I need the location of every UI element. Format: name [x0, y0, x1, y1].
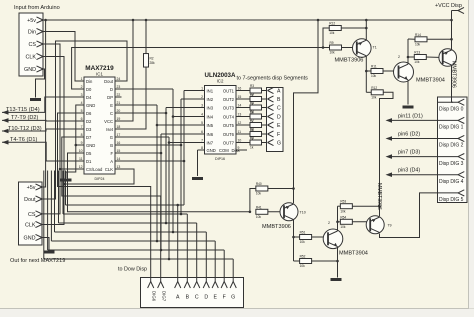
svg-text:2: 2	[81, 85, 83, 89]
svg-text:15: 15	[238, 95, 242, 99]
off-page arrow pin3 (D4)	[386, 172, 393, 177]
resistor R54 (stage2 T12 base)	[340, 215, 352, 229]
wire R54 right to T12 base	[352, 221, 370, 223]
svg-text:CLK: CLK	[105, 167, 113, 172]
wire +5v staircase to stage2	[292, 20, 318, 203]
off-page arrow pin11 (D1)	[386, 118, 393, 123]
svg-text:OUT1: OUT1	[223, 88, 235, 93]
label: T7-T9 (D2)	[11, 115, 38, 121]
wire pin11 (D1) to Disp DIG 1	[392, 119, 438, 121]
label: MMBT3906 vertical (stage2)	[376, 183, 382, 210]
svg-text:T4-T6 (D1): T4-T6 (D1)	[10, 137, 37, 143]
label: T4-T6 (D1)	[10, 137, 37, 143]
svg-text:2: 2	[328, 221, 330, 225]
resistor R9 (segment G)	[250, 136, 262, 150]
wire U2 OUT5 to resistor	[243, 124, 251, 126]
label: MMBT3906 (stage2)	[262, 224, 291, 230]
wire pin7 (D3) to Disp DIG 3	[392, 156, 438, 158]
svg-text:10k: 10k	[340, 225, 346, 229]
svg-text:A: A	[176, 295, 180, 301]
svg-text:C: C	[277, 106, 281, 112]
wire segment net D (U1 pin to U2 IN and J4)	[55, 89, 207, 282]
svg-text:10k: 10k	[256, 215, 262, 219]
wire R54 left	[338, 221, 341, 223]
wire T2 collector rail	[407, 39, 410, 64]
svg-text:C: C	[195, 295, 199, 301]
wire T10 collector rail	[292, 220, 295, 261]
wire R51 right to T11 base	[312, 236, 328, 238]
label: T11	[328, 221, 330, 225]
svg-text:R7: R7	[250, 119, 254, 123]
wire T2 emitter to ground	[407, 80, 409, 105]
svg-text:9: 9	[81, 141, 83, 145]
svg-text:MMBT3904: MMBT3904	[416, 78, 445, 84]
svg-text:MMBT3906: MMBT3906	[262, 224, 291, 230]
svg-text:R9: R9	[330, 41, 334, 45]
label: pin11 (D1)	[398, 113, 423, 119]
svg-text:10k: 10k	[300, 264, 306, 268]
svg-text:C: C	[110, 111, 113, 116]
svg-text:Input from Arduino: Input from Arduino	[14, 5, 60, 11]
wire R13 right to T3 base	[426, 56, 442, 59]
svg-text:10k: 10k	[330, 51, 336, 55]
svg-text:CLK: CLK	[25, 223, 36, 229]
svg-text:D3: D3	[86, 127, 92, 132]
wire R13 left	[408, 56, 414, 58]
svg-text:CS: CS	[28, 212, 36, 218]
label: MAX7219 / IC1	[85, 65, 114, 181]
label: +VCC Disp	[435, 3, 462, 9]
svg-text:T10: T10	[300, 211, 306, 215]
label: ULN2003A / IC2	[205, 72, 236, 161]
svg-text:GND: GND	[24, 67, 36, 73]
IC U1 MAX7219 body	[84, 77, 115, 174]
svg-text:Disp DIG 5: Disp DIG 5	[439, 197, 464, 203]
svg-text:Disp DIG 4: Disp DIG 4	[439, 179, 464, 185]
label: T1	[373, 46, 377, 50]
svg-text:18: 18	[117, 125, 121, 129]
wire U1 GND pins 4,9 to ground	[66, 105, 78, 178]
svg-text:8: 8	[201, 146, 203, 150]
IC U1 right pin labels	[104, 79, 114, 172]
svg-text:E: E	[213, 295, 217, 301]
svg-text:23: 23	[117, 85, 121, 89]
svg-text:10k: 10k	[340, 209, 346, 213]
transistor T11 MMBT3904 (NPN)	[323, 229, 343, 249]
resistor R40 (stage2 PNP pullup)	[256, 182, 268, 196]
wire J1 GND to ground	[36, 69, 45, 98]
off-page arrow pin7 (D3)	[386, 154, 393, 159]
connector J5 pins Disp DIG 0-5	[438, 99, 465, 203]
svg-text:+5v: +5v	[27, 18, 36, 24]
svg-text:Disp DIG 0: Disp DIG 0	[439, 106, 464, 112]
svg-text:MMBT3904: MMBT3904	[339, 251, 368, 257]
svg-text:T7-T9 (D2): T7-T9 (D2)	[11, 115, 38, 121]
off-page arrow T7-T9 (D2)	[2, 118, 9, 123]
svg-text:Iset: Iset	[106, 127, 114, 132]
svg-text:MMBT3906: MMBT3906	[376, 183, 382, 210]
svg-text:10k: 10k	[414, 60, 420, 64]
svg-text:OUT4: OUT4	[223, 114, 235, 119]
wire T10 collector to R52	[294, 260, 300, 262]
svg-text:10k: 10k	[329, 31, 335, 35]
wire segment net C (U1 pin to U2 IN and J4)	[59, 108, 199, 282]
wire node T13-T15 (D4)	[2, 97, 78, 112]
wire U2 OUT4 to resistor	[243, 116, 251, 118]
svg-text:R41: R41	[256, 205, 262, 209]
svg-text:OUT2: OUT2	[223, 97, 235, 102]
transistor T2 MMBT3904 (NPN)	[394, 62, 414, 82]
svg-text:4: 4	[81, 101, 83, 105]
svg-text:D0: D0	[86, 87, 92, 92]
ground (T2 emitter)	[403, 106, 414, 109]
svg-text:16: 16	[117, 141, 121, 145]
svg-text:DIG7: DIG7	[162, 291, 167, 302]
svg-text:6: 6	[81, 117, 83, 121]
svg-text:10: 10	[79, 149, 83, 153]
resistor R14 (stage1 top pullup)	[415, 33, 427, 47]
wire CS branch to U1 pin12	[60, 168, 78, 170]
svg-text:11: 11	[79, 157, 83, 161]
wire +5v rail (top)	[43, 19, 452, 22]
IC U1 right pin stubs and pin numbers 24-13	[115, 77, 122, 169]
ground (T11 emitter)	[331, 278, 342, 281]
connector J2 Out for next MAX7219	[19, 182, 43, 245]
svg-text:R14: R14	[415, 33, 421, 37]
svg-text:24: 24	[117, 77, 121, 81]
svg-text:GND: GND	[207, 148, 216, 153]
wire CS net (J1 to U1 pin12 and J2)	[42, 44, 61, 214]
IC U2 right pin stubs, numbers and OUT labels	[207, 87, 248, 154]
svg-text:DIP16: DIP16	[215, 157, 225, 161]
svg-text:7: 7	[201, 139, 203, 143]
resistor R3 (segment A)	[250, 84, 262, 98]
wire resistor R5 to segment connector C	[262, 107, 268, 109]
svg-text:OUT3: OUT3	[223, 105, 235, 110]
svg-text:17: 17	[117, 133, 121, 137]
svg-text:R8: R8	[250, 128, 254, 132]
svg-text:10k: 10k	[300, 240, 306, 244]
ground (input connector)	[30, 98, 41, 101]
wire R12b left	[366, 91, 371, 93]
svg-text:CS/Load: CS/Load	[86, 167, 103, 172]
resistor R5 (segment C)	[250, 101, 262, 115]
svg-text:3: 3	[201, 104, 203, 108]
svg-text:2: 2	[201, 95, 203, 99]
svg-text:10k: 10k	[415, 42, 421, 46]
svg-text:D6: D6	[86, 111, 92, 116]
svg-text:+5v: +5v	[27, 185, 36, 191]
svg-text:19: 19	[117, 117, 121, 121]
svg-text:12: 12	[238, 121, 242, 125]
wire CLK net (J1 to J2)	[42, 57, 65, 225]
svg-text:IN6: IN6	[207, 132, 214, 137]
wire resistor R6 to segment connector D	[262, 116, 268, 118]
label: MMBT3906 vertical (stage1)	[451, 61, 457, 88]
svg-text:OUT6: OUT6	[223, 132, 235, 137]
svg-text:10k: 10k	[371, 95, 377, 99]
label: T10	[300, 211, 306, 215]
connector J4 to Dow Disp body	[141, 278, 244, 308]
connector J5 Disp DIG body	[438, 97, 468, 203]
wire resistor R7 to segment connector E	[262, 124, 268, 126]
wire Din net (J1 to U1 pin1)	[43, 32, 78, 82]
label: MMBT3906 (stage1)	[335, 57, 364, 63]
svg-text:DIG6: DIG6	[152, 291, 157, 302]
svg-text:IN3: IN3	[207, 105, 214, 110]
wire R11 right to T2 base	[383, 70, 399, 72]
wire segment net A (U1 pin to U2 IN and J4)	[66, 91, 199, 282]
svg-text:IN5: IN5	[207, 123, 214, 128]
svg-text:G: G	[277, 141, 281, 147]
wire R53 left	[338, 205, 341, 207]
wire Dout net (U1 pin24 to J2 Dout)	[42, 41, 127, 199]
label: to 7-segments disp Segments	[237, 76, 309, 82]
svg-text:GND: GND	[24, 236, 36, 242]
resistor R8 (segment F)	[250, 128, 262, 142]
wire R52 right to T11 emitter rail	[312, 260, 339, 263]
label: T10-T12 (D3)	[8, 126, 42, 132]
svg-text:IN7: IN7	[207, 140, 214, 145]
svg-text:3: 3	[81, 93, 83, 97]
resistor R4 (segment B)	[250, 93, 262, 107]
wire T11 emitter to ground	[337, 247, 339, 278]
svg-text:T13-T15 (D4): T13-T15 (D4)	[6, 107, 40, 113]
svg-text:VCC: VCC	[104, 119, 113, 124]
wire R40 left L-bend	[249, 189, 256, 214]
svg-text:OUT7: OUT7	[223, 140, 235, 145]
transistor T12 MMBT3906 (PNP, digit driver)	[366, 216, 384, 234]
svg-text:D1: D1	[86, 159, 92, 164]
resistor R9 (stage1 PNP base)	[330, 41, 342, 55]
svg-text:R9: R9	[250, 136, 254, 140]
svg-text:12: 12	[79, 165, 83, 169]
wire R9 to T1 base	[342, 47, 357, 49]
svg-text:15: 15	[117, 149, 121, 153]
svg-text:D: D	[110, 87, 113, 92]
wire R14 right to +VCC rail	[427, 38, 453, 41]
wire resistor R8 to segment connector F	[262, 133, 268, 135]
label: Input from Arduino	[14, 5, 60, 11]
wire T1 collector rail	[365, 56, 368, 93]
IC U2 left pin stubs, numbers and IN labels	[198, 87, 214, 151]
svg-text:IN1: IN1	[207, 88, 214, 93]
svg-text:B: B	[186, 295, 190, 301]
wire U2 OUT2 to resistor	[243, 98, 251, 100]
resistor R13 (stage1 T3 base)	[414, 51, 426, 65]
svg-text:E: E	[110, 103, 113, 108]
label: pin6 (D2)	[398, 132, 420, 138]
wire segment net B (U1 pin to U2 IN and J4)	[63, 99, 198, 282]
resistor R41 (stage2 PNP base)	[256, 205, 268, 219]
wire R12 right to T1 emitter node	[341, 27, 366, 29]
svg-text:R12: R12	[371, 86, 377, 90]
svg-text:IN4: IN4	[207, 114, 214, 119]
svg-text:A: A	[110, 159, 113, 164]
svg-text:Disp DIG 1: Disp DIG 1	[439, 125, 464, 131]
svg-text:CS: CS	[29, 42, 37, 48]
wire R14 left	[408, 38, 415, 40]
svg-text:+VCC Disp: +VCC Disp	[435, 3, 462, 9]
svg-text:pin11 (D1): pin11 (D1)	[398, 113, 423, 119]
svg-text:R52: R52	[300, 255, 306, 259]
label: T2	[398, 55, 400, 59]
svg-text:5: 5	[201, 121, 203, 125]
wire U2 OUT3 to resistor	[243, 107, 251, 109]
wire resistor R4 to segment connector B	[262, 98, 268, 100]
svg-text:R13: R13	[414, 51, 420, 55]
wire node T10-T12 (D3)	[2, 129, 78, 131]
svg-text:Din: Din	[28, 30, 36, 36]
svg-text:D4: D4	[86, 95, 92, 100]
svg-text:13: 13	[117, 165, 121, 169]
svg-text:F: F	[110, 151, 113, 156]
svg-text:F: F	[277, 132, 280, 138]
svg-text:B: B	[110, 143, 113, 148]
svg-text:A: A	[277, 89, 281, 95]
resistor R53 (stage2 top)	[340, 200, 352, 214]
svg-text:R53: R53	[340, 200, 346, 204]
svg-text:R5: R5	[250, 101, 254, 105]
svg-text:R3: R3	[250, 84, 254, 88]
IC U1 left pin stubs and pin numbers 1-12	[78, 77, 85, 169]
wire U2 OUT6 to resistor	[243, 133, 251, 135]
svg-text:Disp DIG 3: Disp DIG 3	[439, 161, 464, 167]
svg-text:to 7-segments disp Segments: to 7-segments disp Segments	[237, 76, 309, 82]
connector J1 Input from Arduino	[19, 13, 43, 76]
wire resistor R9 to segment connector G	[262, 142, 268, 144]
wire T12 collector to Disp DIG 5	[380, 193, 438, 238]
svg-text:R6: R6	[250, 110, 254, 114]
label: MMBT3904 (stage2)	[339, 251, 368, 257]
svg-text:14: 14	[238, 104, 242, 108]
wire net DIG7 (U1 pin8 D7 to J4)	[62, 137, 161, 282]
svg-text:pin3 (D4): pin3 (D4)	[398, 168, 420, 174]
resistor R51 (stage2 NPN base)	[300, 231, 312, 245]
wire J2 GND to ground	[42, 238, 49, 251]
svg-text:G: G	[110, 135, 113, 140]
svg-text:R51: R51	[300, 231, 306, 235]
svg-text:7: 7	[81, 125, 83, 129]
wire T11 collector rail	[336, 206, 339, 231]
label: Out for next MAX7219	[10, 258, 65, 264]
svg-text:T1: T1	[373, 46, 377, 50]
connector J4 pins DIG6 DIG7 A-G	[148, 282, 237, 302]
resistor R12 (stage1 PNP pullup)	[329, 22, 341, 36]
svg-text:E: E	[277, 123, 281, 129]
wire segment net F (U1 pin to U2 IN and J4)	[48, 134, 225, 282]
svg-text:B: B	[277, 97, 281, 103]
wire +5v to U1 VCC pin19	[122, 20, 134, 121]
svg-text:GND: GND	[86, 143, 95, 148]
wire R12 left to base line	[323, 28, 330, 48]
IC U2 ULN2003A body	[205, 86, 237, 155]
svg-text:Din: Din	[86, 79, 93, 84]
wire R12b right chain to stage2 T12 emitter	[378, 92, 393, 216]
wire +5v to R2	[145, 20, 147, 54]
off-page arrow pin6 (D2)	[386, 136, 393, 141]
svg-text:20: 20	[117, 109, 121, 113]
svg-text:21: 21	[117, 101, 121, 105]
svg-text:10k: 10k	[371, 74, 377, 78]
wire R2 to U1 Iset pin18	[122, 67, 147, 129]
IC U1 left pin labels	[86, 79, 103, 172]
resistor R6 (segment D)	[250, 110, 262, 124]
resistor R11 (stage1 NPN base)	[371, 65, 383, 79]
wire net D5 (U1 pin10 to stage 2 drive)	[68, 153, 250, 212]
svg-text:F: F	[223, 295, 226, 301]
resistor R2 (Iset)	[144, 54, 156, 68]
svg-text:IN2: IN2	[207, 97, 214, 102]
off-page arrow T4-T6 (D1)	[2, 140, 9, 145]
ground (U1)	[61, 179, 72, 182]
label: MMBT3904 (stage1)	[416, 78, 445, 84]
svg-text:28k: 28k	[150, 61, 156, 65]
transistor T1 MMBT3906 (PNP)	[353, 39, 372, 58]
wire resistor R3 to segment connector A	[262, 90, 268, 92]
wire R11 left	[366, 70, 371, 72]
svg-text:R11: R11	[371, 65, 377, 69]
off-page arrow T13-T15 (D4)	[2, 110, 9, 115]
svg-text:IC2: IC2	[217, 79, 224, 84]
off-page arrow T10-T12 (D3)	[2, 129, 9, 134]
label: to Dow Disp	[118, 267, 147, 273]
wire U2 OUT1 to resistor	[243, 90, 251, 92]
svg-text:5: 5	[81, 109, 83, 113]
wire segment net G (U1 pin to U2 IN and J4)	[44, 137, 233, 282]
svg-text:D7: D7	[86, 135, 92, 140]
transistor T3 MMBT3906 (PNP, digit driver)	[439, 49, 457, 67]
svg-text:R4: R4	[250, 93, 254, 97]
svg-text:DIP24: DIP24	[95, 177, 105, 181]
wire R53 right to T12 emitter rail	[352, 205, 379, 207]
wire R41 right to T10 base	[268, 211, 284, 213]
svg-text:13: 13	[238, 113, 242, 117]
wire node T4-T6 (D1)	[2, 142, 78, 161]
svg-text:1: 1	[201, 87, 203, 91]
wire T3 collector to Disp DIG 0	[452, 65, 454, 102]
svg-text:10: 10	[238, 139, 242, 143]
svg-text:8: 8	[81, 133, 83, 137]
svg-text:T10-T12 (D3): T10-T12 (D3)	[8, 126, 42, 132]
svg-text:pin6 (D2): pin6 (D2)	[398, 132, 420, 138]
svg-text:4: 4	[201, 113, 203, 117]
label: pin7 (D3)	[398, 150, 420, 156]
svg-text:D5: D5	[86, 151, 92, 156]
svg-text:R12: R12	[329, 22, 335, 26]
svg-text:R40: R40	[256, 182, 262, 186]
wire U2 OUT7 to resistor	[243, 142, 251, 144]
wire U2 GND pin to ground	[197, 150, 200, 176]
svg-text:R2: R2	[150, 56, 154, 60]
svg-text:Disp DIG 2: Disp DIG 2	[439, 143, 464, 149]
label: T9	[388, 224, 392, 228]
wire +5v to J2 +5v	[42, 20, 46, 187]
svg-text:10k: 10k	[256, 192, 262, 196]
svg-text:16: 16	[238, 87, 242, 91]
svg-text:2: 2	[398, 55, 400, 59]
transistor T10 MMBT3906 (PNP)	[280, 203, 298, 221]
wire +VCC rail to T3 emitter	[450, 11, 453, 50]
wire R40 right to T10 emitter node	[268, 188, 294, 190]
svg-text:Dout: Dout	[24, 197, 36, 203]
svg-text:OUT5: OUT5	[223, 123, 235, 128]
svg-text:DP: DP	[107, 95, 113, 100]
wire pin3 (D4) to Disp DIG 4	[392, 174, 438, 176]
svg-text:Diss: Diss	[232, 148, 240, 153]
connector J3 segment outputs body	[267, 88, 284, 152]
wire T1 emitter to +5v	[365, 20, 368, 40]
